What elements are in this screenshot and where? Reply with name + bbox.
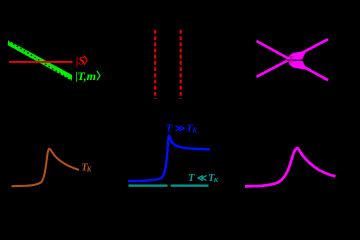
teal line T << TK (bottom-middle, right segment): [171, 184, 209, 186]
triplet band |T,m> (thick green line, top-left panel): [8, 40, 72, 81]
magenta conductance peak curve (bottom-right): [245, 148, 336, 186]
svg-text:T: T: [166, 124, 173, 135]
label T << T_K (teal): [188, 173, 219, 184]
left red dashed vertical line (top-middle panel): [154, 30, 156, 99]
Kondo conductance peak curve (bottom-left, brown): [12, 149, 80, 186]
dark purple mark at crossing point: [290, 56, 292, 63]
black slit between the lobes: [287, 59, 304, 61]
magenta level line B (top-right panel, ascending): [257, 39, 329, 77]
svg-text:T,m: T,m: [77, 69, 96, 83]
label T >> T_K (blue): [166, 123, 199, 134]
svg-text:〉: 〉: [96, 70, 106, 83]
upper filled lobe at avoided crossing: [288, 51, 307, 60]
singlet level |S> (red horizontal line): [9, 61, 73, 63]
svg-text:≫: ≫: [175, 123, 185, 134]
svg-text:≪: ≪: [197, 174, 207, 184]
svg-text:T: T: [188, 173, 195, 184]
right red dashed vertical line (top-middle panel): [180, 30, 182, 99]
lower filled lobe at avoided crossing: [288, 61, 307, 70]
label |S>: [76, 53, 94, 67]
blue conductance curve T >> TK (bottom-middle): [128, 136, 210, 182]
svg-text:〉: 〉: [83, 54, 93, 67]
teal line T << TK (bottom-middle, left segment): [129, 184, 168, 186]
label |T,m>: [75, 69, 106, 83]
dotted level crossing the triplet band (black dotted line): [6, 39, 74, 82]
magenta level line A (top-right panel, descending): [257, 41, 329, 80]
label T_K (bottom-left, brown): [81, 163, 93, 174]
svg-text:K: K: [213, 177, 219, 184]
